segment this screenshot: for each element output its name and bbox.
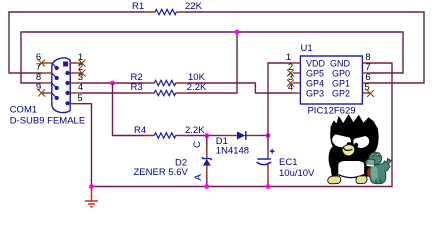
svg-text:10u/10V: 10u/10V (279, 168, 315, 179)
dino tongue (367, 169, 372, 177)
dino belly (371, 167, 378, 181)
node junction dot net B (235, 30, 240, 35)
pupils (347, 142, 351, 146)
svg-text:COM1: COM1 (10, 105, 37, 116)
svg-text:VDD: VDD (306, 59, 326, 69)
diode D1 1N4148 (216, 131, 258, 156)
wire net C: R2 right jog to IC GP3 (187, 83, 293, 93)
no-connect X pin1 (79, 60, 86, 67)
eyelids (331, 127, 353, 139)
beak (342, 145, 355, 156)
ground (85, 188, 98, 207)
eye whites (331, 132, 352, 148)
penguin black body (329, 114, 379, 177)
left foot (328, 176, 341, 184)
svg-text:GND: GND (330, 59, 351, 69)
wire connector pin4 to R3 (82, 92, 143, 94)
wire net B: connector pin8 bus to IC GP0 (21, 32, 403, 83)
connector pin stubs right (70, 63, 82, 104)
svg-text:5: 5 (77, 93, 82, 104)
wire zener vertical upper (206, 136, 208, 147)
U1 pin stubs left (293, 63, 301, 93)
node junction dot pin3/R4 branch (110, 81, 115, 86)
svg-text:R1: R1 (132, 1, 144, 12)
svg-text:EC1: EC1 (279, 157, 297, 168)
wire EC1 vertical upper (267, 136, 269, 151)
diode D2 zener (134, 141, 212, 181)
svg-text:A: A (193, 174, 204, 181)
node junction dot gnd left (89, 184, 94, 189)
svg-text:ZENER 5.6V: ZENER 5.6V (134, 167, 189, 178)
resistor R3 (131, 82, 208, 96)
svg-text:2.2K: 2.2K (187, 82, 207, 93)
wire zener vertical lower (206, 178, 208, 187)
leg connecting arc (338, 174, 364, 177)
dino nostril (366, 161, 367, 162)
dino eyes (371, 154, 374, 157)
svg-text:PIC12F629: PIC12F629 (307, 106, 355, 117)
node junction dot R4/zener (204, 133, 209, 138)
svg-text:2.2K: 2.2K (185, 125, 205, 136)
dino teeth (367, 164, 374, 167)
wire zener node to D1 anode (207, 135, 222, 137)
svg-text:U1: U1 (301, 43, 313, 54)
pin 1 square (63, 62, 68, 67)
wire R4 to zener node (187, 135, 207, 137)
U1 pin numbers (286, 52, 371, 93)
wire net A top: connector pin7 to R1 to IC GP1 (9, 12, 424, 83)
svg-text:22K: 22K (185, 1, 203, 12)
svg-text:5: 5 (364, 82, 369, 93)
node junction dot gnd EC1 (266, 184, 271, 189)
node junction dot gnd zener (204, 184, 209, 189)
svg-text:C: C (192, 141, 203, 148)
connector left pin dots (55, 66, 59, 70)
no-connect X U1 pin3 (287, 80, 294, 87)
no-connect X pin6 (38, 60, 45, 67)
wire net D: junction down to R4 row (113, 83, 144, 136)
wire EC1 vertical lower (267, 181, 269, 187)
no-connect X pin2 (79, 70, 86, 77)
wire net B branch: junction to R3 right side (187, 32, 237, 93)
svg-text:R4: R4 (134, 125, 146, 136)
svg-text:9: 9 (36, 82, 41, 93)
U1 inner pin names (306, 59, 351, 99)
resistor R4 (134, 125, 205, 138)
dino snout (366, 159, 375, 166)
connector right pin dots (65, 71, 69, 75)
svg-text:GP4: GP4 (306, 79, 324, 89)
resistor R1 (132, 1, 203, 15)
no-connect X U1 pin2 (287, 70, 294, 77)
svg-text:1N4148: 1N4148 (216, 146, 249, 157)
connector COM1 D-SUB9 female body (52, 58, 70, 113)
svg-text:GP0: GP0 (332, 69, 350, 79)
IC U1 PIC12F629 box (300, 56, 362, 104)
svg-text:4: 4 (288, 82, 293, 93)
right foot (356, 176, 367, 184)
connector pin numbers (36, 52, 83, 104)
node junction dot D1/EC1/VDD (266, 133, 271, 138)
left pin diagonals (52, 63, 57, 98)
connector pin stubs left (42, 63, 52, 93)
U1 pin stubs right (362, 63, 370, 93)
penguin mascot (328, 114, 392, 184)
wire net E VDD: node up to IC pin1 (268, 63, 293, 136)
no-connect X pin9 (38, 90, 45, 97)
svg-text:R3: R3 (131, 82, 143, 93)
dino head (369, 152, 382, 164)
svg-text:D-SUB9 FEMALE: D-SUB9 FEMALE (10, 116, 86, 127)
svg-text:4: 4 (78, 82, 83, 93)
svg-text:GP2: GP2 (332, 89, 350, 99)
wire D1 cathode to VDD node (258, 135, 268, 137)
svg-text:GP1: GP1 (332, 79, 350, 89)
svg-text:GP3: GP3 (306, 89, 324, 99)
dino body (369, 158, 391, 183)
wire net F ground rail: pin5 down, rail, up to IC GND pin8 (82, 63, 392, 187)
dino leg lines (376, 179, 381, 184)
no-connect X U1 pin5 (367, 90, 374, 97)
resistor R2 (131, 72, 206, 86)
svg-text:GP5: GP5 (306, 69, 324, 79)
wire net C: connector pin3 to R2 (82, 82, 143, 84)
capacitor EC1 (257, 149, 316, 181)
